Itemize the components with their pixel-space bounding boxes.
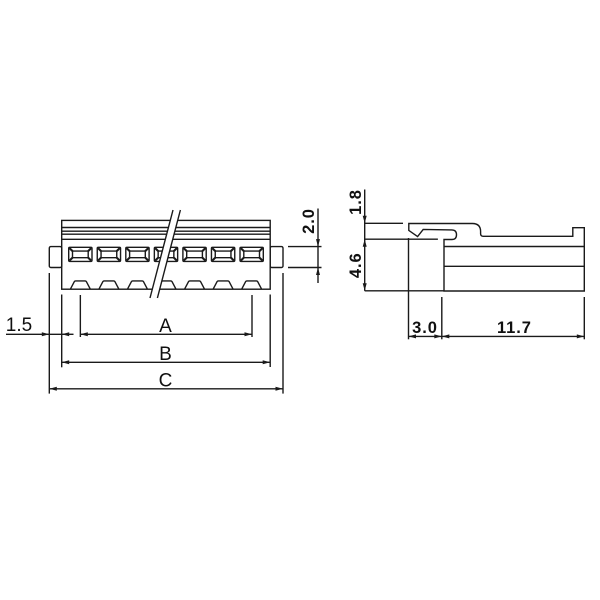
svg-text:3.0: 3.0 [412, 319, 438, 337]
svg-text:1.5: 1.5 [6, 315, 32, 336]
svg-text:1.8: 1.8 [347, 189, 365, 215]
svg-text:2.0: 2.0 [300, 208, 318, 234]
svg-text:A: A [159, 316, 172, 337]
svg-text:11.7: 11.7 [497, 319, 532, 337]
svg-text:C: C [159, 370, 173, 391]
svg-text:4.6: 4.6 [347, 252, 365, 278]
svg-text:B: B [159, 344, 172, 365]
